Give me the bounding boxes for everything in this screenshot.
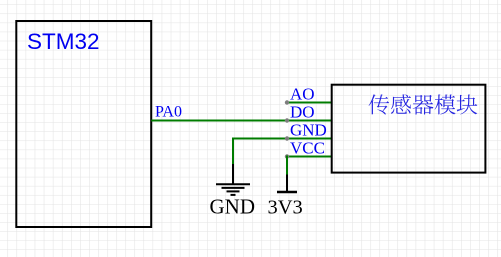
junction dot on GND wire — [285, 136, 289, 140]
svg-text:STM32: STM32 — [27, 29, 100, 54]
svg-text:GND: GND — [290, 121, 327, 140]
module box sensor 传感器模块 — [332, 85, 486, 173]
junction dot on DO wire — [285, 118, 289, 122]
ground symbol GND — [216, 164, 250, 195]
junction dot AO wire end — [285, 100, 289, 104]
label 传感器模块 — [369, 94, 478, 114]
wire GND horizontal — [233, 138, 332, 140]
svg-text:3V3: 3V3 — [268, 197, 303, 219]
svg-text:AO: AO — [290, 85, 315, 104]
wire GND vertical — [232, 138, 234, 166]
wire VCC vertical — [286, 156, 288, 177]
wire PA0 to DO pin — [151, 120, 332, 122]
svg-text:PA0: PA0 — [155, 104, 182, 121]
wire AO stub — [287, 102, 332, 104]
wire VCC horizontal — [287, 156, 332, 158]
svg-text:GND: GND — [210, 195, 256, 219]
svg-text:DO: DO — [290, 103, 315, 122]
power symbol 3V3 bar — [277, 175, 297, 193]
junction dot VCC corner — [285, 154, 289, 158]
module box STM32 — [16, 21, 151, 227]
svg-text:VCC: VCC — [290, 139, 325, 158]
